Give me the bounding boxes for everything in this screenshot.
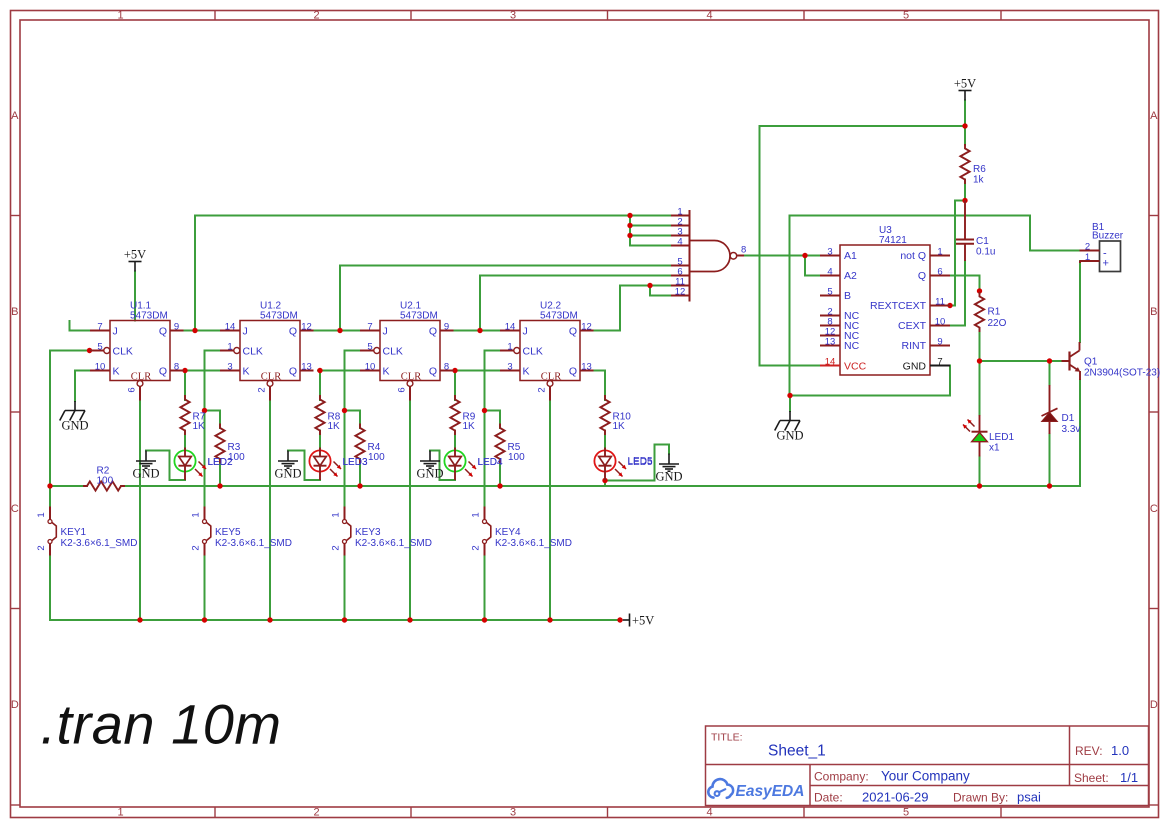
push button KEY3 [343,507,351,556]
wire GND net drop [789,396,791,412]
LED LED2 [174,450,195,471]
svg-text:1: 1 [331,512,342,517]
ground GND stage2 [278,451,298,469]
svg-text:9: 9 [174,321,179,332]
ground GND stage3 [420,451,440,469]
svg-text:1: 1 [227,341,232,352]
svg-text:14: 14 [825,356,836,367]
svg-text:VCC: VCC [844,361,867,373]
ground GND stage1 [136,451,156,469]
wire LED2 cathode to GND [146,451,185,481]
LED LED4 [444,450,465,471]
wire U1.1 K10 to GND [75,371,90,402]
svg-text:100: 100 [97,476,114,487]
svg-text:1: 1 [117,10,123,22]
wire node down to D1 [1049,361,1051,385]
svg-text:D: D [11,699,19,711]
wire gate pin1 feed [195,215,671,217]
svg-text:CLK: CLK [243,346,263,358]
junction rail CLR2 [267,617,272,622]
svg-text:K2-3.6×6.1_SMD: K2-3.6×6.1_SMD [355,538,432,549]
svg-text:4: 4 [827,266,832,277]
svg-text:100: 100 [508,452,525,463]
svg-text:3: 3 [510,10,516,22]
svg-text:C: C [11,503,19,515]
resistor R6 1k [960,145,969,183]
junction rail CLR1 [137,617,142,622]
wire node down to LED1 [979,361,981,415]
svg-text:10: 10 [95,361,106,372]
svg-text:13: 13 [301,361,312,372]
svg-text:10: 10 [935,316,946,327]
svg-text:CLK: CLK [383,346,403,358]
svg-text:LED4: LED4 [478,457,503,468]
svg-text:A2: A2 [844,270,857,282]
svg-text:11: 11 [935,296,945,307]
wire U2.2 Q12 up to gate pin11 [594,286,620,331]
junction rail KEY4 [482,617,487,622]
svg-text:9: 9 [444,321,449,332]
push button KEY5 [203,507,211,556]
wire buzzer pin2 [1030,250,1080,252]
svg-text:R1: R1 [988,307,1001,318]
wire node to R3 [205,411,221,429]
zener diode D1 3.3v [1042,385,1058,434]
wire LED5 cathode to GND [605,445,669,481]
wire U2.2 CLR to rail [549,401,551,621]
svg-text:KEY3: KEY3 [355,527,381,538]
wire to R8 [319,371,321,401]
svg-text:CLK: CLK [523,346,543,358]
wire U2.1 CLR to rail [409,401,411,621]
svg-text:+5V: +5V [632,614,654,628]
junction U2.1 Q9 [477,328,482,333]
resistor R10 1K [600,396,609,434]
svg-text:9: 9 [937,336,942,347]
svg-text:6: 6 [397,387,408,392]
junction pin11 [947,303,952,308]
svg-text:J: J [383,326,388,338]
svg-text:B: B [1150,306,1157,318]
svg-text:not Q: not Q [900,250,926,262]
junction D1 bus [1047,483,1052,488]
svg-text:B: B [844,290,851,302]
transistor Q1 2N3904 [1062,342,1081,380]
svg-text:Your Company: Your Company [881,769,970,784]
junction gate pin11 [647,283,652,288]
svg-text:C: C [1150,503,1158,515]
svg-text:KEY5: KEY5 [215,527,241,538]
wire node to U3 A2 [805,256,820,276]
wire to R7 [184,371,186,401]
junction gate pin1 [627,213,632,218]
svg-text:NC: NC [844,340,860,352]
junction D1 node [1047,358,1052,363]
svg-text:K2-3.6×6.1_SMD: K2-3.6×6.1_SMD [495,538,572,549]
svg-text:B: B [11,306,18,318]
wire KEY1 to +5V rail [50,556,620,621]
8-input NAND gate [671,210,744,302]
wire U1.1 Q9 to U1.2 J14 [184,330,220,332]
junction rail KEY3 [342,617,347,622]
svg-text:LED5: LED5 [628,456,653,467]
svg-text:GND: GND [776,429,803,443]
svg-text:J: J [113,326,118,338]
svg-text:1: 1 [36,512,47,517]
wire R3 to bus [219,459,221,486]
svg-text:Buzzer: Buzzer [1092,231,1124,242]
wire R8 to LED3 [319,431,321,449]
junction rail +5V [617,617,622,622]
wire LED1 to bus [979,457,981,487]
svg-text:Q: Q [289,366,297,378]
svg-text:0.1u: 0.1u [976,247,995,258]
wire U2.1 CLK to KEY3 [345,351,361,507]
capacitor C1 0.1u [956,201,974,262]
svg-text:74121: 74121 [879,235,907,246]
svg-text:Q: Q [569,366,577,378]
svg-text:K: K [383,366,390,378]
svg-text:Drawn By:: Drawn By: [953,791,1008,805]
wire gate pin5 feed [340,265,671,267]
svg-text:2: 2 [331,545,342,550]
svg-text:2: 2 [257,387,268,392]
svg-text:REXTCEXT: REXTCEXT [870,300,927,312]
svg-text:5: 5 [903,10,909,22]
junction U1.2 Q12 [337,328,342,333]
wire buzzer minus to GND net [790,216,1031,396]
svg-text:Q: Q [289,326,297,338]
svg-text:K: K [243,366,250,378]
junction R3 tap [202,408,207,413]
svg-text:Q1: Q1 [1084,357,1098,368]
wire common bus to Q1 emitter [121,380,1080,486]
svg-text:Q: Q [429,326,437,338]
wire LED5 node to bus [604,481,606,487]
wire R7 to LED2 [184,431,186,449]
svg-text:6: 6 [127,387,138,392]
svg-text:+5V: +5V [124,248,146,262]
svg-text:2021-06-29: 2021-06-29 [862,790,929,805]
svg-text:LED2: LED2 [208,457,233,468]
IC U3 74121 [820,245,950,375]
svg-text:22O: 22O [988,318,1007,329]
wire R4 to bus [359,459,361,486]
junction R3 bus [217,483,222,488]
svg-text:GND: GND [132,467,159,481]
wire node to REXTCEXT pin11 [950,201,965,306]
svg-text:1/1: 1/1 [1120,770,1138,785]
flip-flop U1.1 5473DM [90,321,184,401]
svg-text:7: 7 [937,356,942,367]
svg-text:A1: A1 [844,250,857,262]
svg-text:12: 12 [301,321,312,332]
svg-text:Q: Q [918,270,926,282]
ground GND stage4 [659,454,679,472]
svg-text:RINT: RINT [902,340,927,352]
wire gate pin2 [630,225,671,227]
svg-text:GND: GND [274,467,301,481]
title block [706,726,1149,806]
wire R1 to node [979,328,981,361]
EasyEDA logo [708,779,733,798]
svg-text:2: 2 [1085,242,1090,253]
svg-text:D1: D1 [1062,413,1075,424]
svg-text:Date:: Date: [814,791,843,805]
svg-text:+: + [1103,258,1109,270]
svg-text:3: 3 [507,361,512,372]
svg-text:GND: GND [903,361,927,373]
svg-text:D: D [1150,699,1158,711]
svg-text:5473DM: 5473DM [540,311,578,322]
resistor R1 22O [975,293,984,331]
svg-text:1: 1 [507,341,512,352]
svg-text:2: 2 [191,545,202,550]
wire U1.1 Q8 to U1.2 K3 [184,370,220,372]
wire D1 to bus [1049,434,1051,486]
svg-text:1.0: 1.0 [1111,743,1129,758]
svg-text:5: 5 [827,286,832,297]
svg-text:4: 4 [706,807,712,819]
svg-text:1: 1 [937,246,942,257]
buzzer B1 [1080,241,1121,272]
svg-text:8: 8 [174,361,179,372]
svg-text:12: 12 [581,321,592,332]
wire gate pin3 [630,235,671,237]
svg-text:13: 13 [825,336,836,347]
push button KEY1 [48,507,56,556]
svg-text:2N3904(SOT-23): 2N3904(SOT-23) [1084,368,1160,379]
svg-text:GND: GND [655,470,682,484]
wire U3 Q6 to R1 [950,276,980,292]
svg-text:LED1: LED1 [989,432,1014,443]
wire LED3 cathode to GND [288,451,320,481]
wire U1.2 CLK to KEY5 [205,351,221,507]
svg-text:2: 2 [36,545,47,550]
svg-text:GND: GND [416,467,443,481]
svg-text:2: 2 [313,807,319,819]
wire U2.2 Q13 to R10 [594,371,605,401]
flip-flop U2.1 5473DM [360,321,454,401]
junction R4 tap [342,408,347,413]
junction R7 tap [182,368,187,373]
junction R8 tap [317,368,322,373]
svg-text:3: 3 [827,246,832,257]
wire gate pin11 feed [620,285,671,287]
push button KEY4 [483,507,491,556]
wire KEY3 to rail [344,556,346,621]
svg-text:1k: 1k [973,175,985,186]
svg-text:+5V: +5V [954,77,976,91]
resistor R9 1K [450,396,459,434]
junction gate pin3 [627,233,632,238]
wire U2.1 Q8 to U2.2 K3 [454,370,500,372]
resistor R3 100 [215,425,224,463]
wire +5V to U3 VCC pin14 [760,126,966,366]
svg-text:psai: psai [1017,790,1041,805]
wire U2.1 Q9 to U2.2 J14 [454,330,500,332]
svg-text:5: 5 [903,807,909,819]
svg-text:7: 7 [367,321,372,332]
wire node to R5 [485,411,501,429]
svg-text:2: 2 [471,545,482,550]
svg-text:Q: Q [159,326,167,338]
wire +5V to U1.1 VCC top [134,272,136,321]
junction LED1 bus [977,483,982,488]
junction GND net [787,393,792,398]
junction U3 A1 [802,253,807,258]
resistor R2 100 [84,481,124,490]
wire U3 GND pin7 to GND net [790,366,950,396]
svg-text:Q: Q [429,366,437,378]
flip-flop U2.2 5473DM [500,321,594,401]
svg-text:3: 3 [510,807,516,819]
svg-text:Q: Q [569,326,577,338]
wire node up to gate pin5 [339,266,341,331]
wire R10 to LED5 [604,431,606,449]
wire gate pins1-4 tie [629,216,631,246]
svg-text:4: 4 [706,10,712,22]
svg-text:Sheet:: Sheet: [1074,771,1109,785]
svg-text:CLR: CLR [541,372,561,383]
wire gate pin6 feed [480,275,671,277]
junction +5V feed [962,123,967,128]
junction R5 tap [482,408,487,413]
junction R9 tap [452,368,457,373]
wire U1.2 Q13 to U2.1 K10 [318,370,360,372]
wire U2.2 CLK to KEY4 [485,351,501,507]
wire LED4 cathode to GND [430,451,455,481]
LED LED5 [594,450,615,471]
wire node up to gate pin6 [479,276,481,331]
flip-flop U1.2 5473DM [220,321,314,401]
svg-text:A: A [1150,110,1158,122]
svg-text:13: 13 [581,361,592,372]
svg-text:14: 14 [505,321,516,332]
svg-text:R6: R6 [973,164,986,175]
wire U1.1 J7 stub hook [70,321,91,331]
svg-text:CLR: CLR [401,372,421,383]
wire R5 to bus [499,459,501,486]
svg-text:100: 100 [368,452,385,463]
svg-text:1K: 1K [613,421,626,432]
svg-text:Q: Q [159,366,167,378]
wire KEY4 to rail [484,556,486,621]
svg-text:CEXT: CEXT [898,320,927,332]
svg-text:Company:: Company: [814,770,869,784]
wire gate pin4 [630,245,671,247]
junction U1.1 CLK [87,348,92,353]
LED LED1 x1 [963,415,988,457]
svg-text:1: 1 [471,512,482,517]
wire node to Q1 base [980,360,1062,362]
wire gate pin12 tie [650,286,671,296]
wire +5V to R6 [964,101,966,145]
junction R1 top [977,288,982,293]
svg-text:A: A [11,110,19,122]
svg-text:10: 10 [365,361,376,372]
svg-text:K2-3.6×6.1_SMD: K2-3.6×6.1_SMD [61,538,138,549]
svg-text:1: 1 [1085,252,1090,263]
svg-text:1: 1 [191,512,202,517]
junction U1.1 Q9 [192,328,197,333]
junction R5 bus [497,483,502,488]
wire R9 to LED4 [454,431,456,449]
wire node Q9 up to gate pin1 [194,216,196,331]
svg-text:1K: 1K [463,421,476,432]
chassis ground near U1.1 [60,401,85,421]
resistor R7 1K [180,396,189,434]
wire to R9 [454,371,456,401]
svg-text:1K: 1K [193,421,206,432]
svg-text:C1: C1 [976,236,989,247]
svg-text:5: 5 [97,341,102,352]
svg-text:KEY4: KEY4 [495,527,521,538]
svg-text:KEY1: KEY1 [61,527,87,538]
junction rail CLR3 [407,617,412,622]
svg-text:12: 12 [675,286,686,297]
wire KEY5 to rail [204,556,206,621]
junction bus R2 [47,483,52,488]
svg-text:4: 4 [677,236,682,247]
svg-text:LED3: LED3 [343,457,368,468]
svg-text:14: 14 [225,321,236,332]
svg-text:2: 2 [537,387,548,392]
junction R4 bus [357,483,362,488]
wire R6 to node [964,180,966,201]
svg-text:TITLE:: TITLE: [711,732,743,744]
svg-text:5473DM: 5473DM [260,311,298,322]
wire gate out to U3 A1 [744,255,820,257]
svg-text:CLK: CLK [113,346,133,358]
resistor R5 100 [495,425,504,463]
svg-text:EasyEDA: EasyEDA [736,783,805,800]
svg-text:K2-3.6×6.1_SMD: K2-3.6×6.1_SMD [215,538,292,549]
wire U1.1 CLR to rail [139,401,141,621]
+5V flag right [959,91,972,101]
svg-text:7: 7 [97,321,102,332]
junction rail KEY5 [202,617,207,622]
svg-text:8: 8 [444,361,449,372]
resistor R8 1K [315,396,324,434]
junction LED1 node [977,358,982,363]
svg-text:CLR: CLR [131,372,151,383]
svg-text:K: K [113,366,120,378]
junction gate pin2 [627,223,632,228]
svg-text:REV:: REV: [1075,744,1103,758]
+5V flag left [129,262,142,272]
svg-text:J: J [243,326,248,338]
wire bus to R2 [50,485,87,487]
wire node to R4 [345,411,361,429]
svg-text:8: 8 [741,245,746,256]
svg-text:3: 3 [227,361,232,372]
svg-text:5473DM: 5473DM [130,311,168,322]
svg-text:3.3v: 3.3v [1062,424,1081,435]
svg-text:CLR: CLR [261,372,281,383]
LED LED3 [309,450,330,471]
svg-text:K: K [523,366,530,378]
svg-text:J: J [523,326,528,338]
wire buzzer pin1 to Q1 collector [1079,261,1081,342]
svg-text:5: 5 [367,341,372,352]
+5V flag at rail [623,614,630,627]
svg-text:5473DM: 5473DM [400,311,438,322]
svg-text:1: 1 [117,807,123,819]
svg-text:Sheet_1: Sheet_1 [768,743,826,760]
wire U1.1 CLK to KEY1 [50,351,90,507]
wire U1.2 CLR to rail [269,401,271,621]
